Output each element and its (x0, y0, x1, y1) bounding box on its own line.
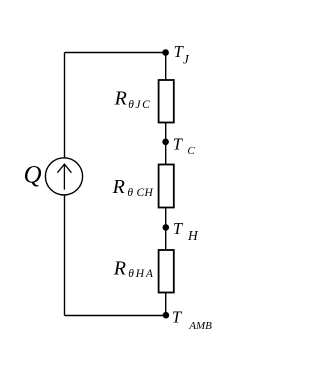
svg-text:C: C (187, 145, 195, 157)
svg-text:R: R (112, 176, 125, 198)
svg-text:R: R (114, 88, 127, 110)
svg-text:T: T (173, 135, 184, 154)
svg-text:T: T (172, 308, 183, 327)
svg-text:θJC: θJC (128, 99, 151, 111)
svg-text:θ CH: θ CH (127, 187, 153, 199)
svg-text:T: T (173, 219, 184, 238)
svg-text:AMB: AMB (188, 320, 212, 332)
svg-text:J: J (183, 52, 190, 67)
svg-text:Q: Q (24, 162, 42, 189)
svg-text:H: H (187, 228, 199, 243)
svg-text:R: R (113, 257, 126, 279)
svg-text:θHA: θHA (128, 268, 154, 280)
